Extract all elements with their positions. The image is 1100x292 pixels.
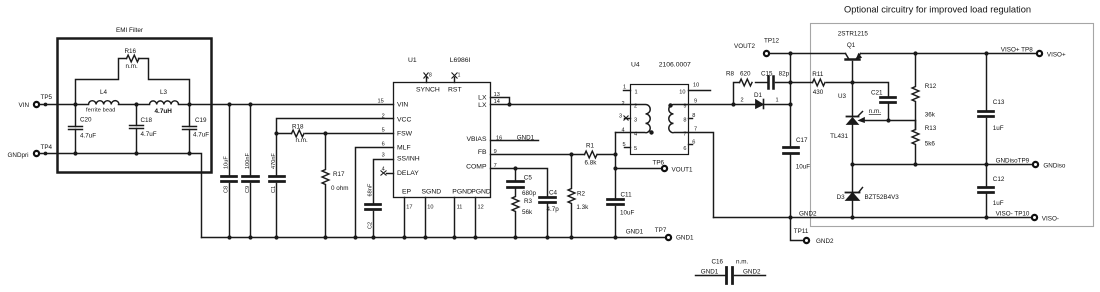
- svg-text:C4: C4: [549, 190, 558, 197]
- svg-text:C19: C19: [195, 117, 207, 124]
- capacitor C13: [979, 54, 994, 165]
- inductor L3: [150, 101, 179, 105]
- label R8: [726, 71, 751, 78]
- svg-text:R8: R8: [726, 71, 735, 78]
- svg-text:Optional circuitry for improve: Optional circuitry for improved load reg…: [844, 5, 1031, 15]
- pin RST stub: [454, 78, 456, 83]
- label GNDpri TP4: [8, 144, 53, 159]
- label C17: [796, 137, 811, 171]
- wire R11 line: [791, 82, 853, 84]
- wire GND2 VISO- rail: [714, 217, 1032, 219]
- svg-text:C9: C9: [245, 186, 251, 193]
- capacitor C12: [979, 165, 994, 218]
- junction dots GND1 rail: [227, 235, 617, 239]
- svg-text:C21: C21: [871, 89, 883, 96]
- svg-text:GND1: GND1: [701, 268, 719, 275]
- capacitor C15: [769, 77, 791, 89]
- svg-text:1: 1: [635, 90, 638, 96]
- svg-text:10: 10: [427, 205, 433, 211]
- svg-text:GND2: GND2: [799, 210, 817, 217]
- svg-text:0 ohm: 0 ohm: [331, 185, 349, 192]
- svg-text:1uF: 1uF: [993, 125, 1004, 132]
- transistor Q1 2STR1215: [846, 54, 862, 60]
- label VISO+ TP8: [1001, 47, 1066, 59]
- label U4: [631, 62, 691, 69]
- svg-text:C5: C5: [524, 175, 533, 182]
- svg-text:C16: C16: [712, 259, 724, 266]
- svg-text:GNDiso: GNDiso: [1043, 163, 1066, 170]
- svg-text:14: 14: [494, 99, 500, 105]
- wire TP11 stub: [791, 218, 804, 241]
- label C2 rotated: [367, 183, 373, 229]
- svg-text:7: 7: [494, 163, 497, 169]
- svg-text:2: 2: [741, 98, 744, 104]
- svg-text:56k: 56k: [522, 209, 533, 216]
- label R13: [925, 125, 937, 148]
- svg-text:GNDpri: GNDpri: [8, 152, 29, 159]
- svg-text:GND2: GND2: [816, 238, 834, 245]
- svg-text:7: 7: [694, 127, 697, 133]
- pin U4-3 stub: [625, 118, 631, 120]
- svg-text:D1: D1: [754, 92, 763, 99]
- capacitor C20: [69, 105, 83, 154]
- svg-text:U4: U4: [631, 62, 640, 69]
- svg-text:LX: LX: [478, 102, 487, 109]
- optional circuitry box: [811, 24, 1094, 227]
- svg-text:C17: C17: [796, 137, 808, 144]
- label C16: [701, 259, 761, 276]
- label GNDiso TP9: [996, 158, 1066, 170]
- svg-text:R12: R12: [925, 83, 937, 90]
- label VISO- TP10: [996, 211, 1059, 223]
- svg-text:GND1: GND1: [676, 235, 694, 242]
- svg-text:R11: R11: [812, 71, 824, 78]
- svg-text:4.7p: 4.7p: [547, 206, 560, 213]
- junction dots VIN line: [44, 102, 512, 106]
- svg-text:4.7uF: 4.7uF: [141, 131, 157, 138]
- svg-text:1: 1: [623, 85, 626, 91]
- junction dots VISO+ rail: [913, 51, 988, 55]
- svg-text:TP6: TP6: [653, 160, 665, 167]
- wire TP6 stub: [616, 168, 662, 170]
- svg-text:17: 17: [406, 205, 412, 211]
- wire GND1 bottom rail: [202, 237, 666, 239]
- junction dots FSW line: [274, 131, 327, 135]
- label R2: [576, 190, 589, 211]
- wire GNDiso rail: [853, 164, 1033, 166]
- svg-text:13: 13: [494, 92, 500, 98]
- label U4 pin numbers inside: [634, 90, 687, 153]
- capacitor C16 gnd bridge: [696, 268, 766, 284]
- svg-text:6: 6: [683, 146, 686, 152]
- transformer U4 body: [631, 85, 689, 155]
- svg-text:TP11: TP11: [794, 228, 809, 235]
- wire VOUT2 to Q1 collector: [791, 53, 846, 55]
- svg-text:82p: 82p: [779, 71, 790, 78]
- svg-text:2106.0007: 2106.0007: [659, 62, 691, 69]
- svg-text:LX: LX: [478, 94, 487, 101]
- svg-text:1: 1: [458, 73, 461, 79]
- label C9 rotated: [245, 153, 251, 193]
- svg-text:4.7uF: 4.7uF: [80, 133, 96, 140]
- label C4: [547, 190, 560, 213]
- label optional box title: [844, 5, 1031, 15]
- transformer primary winding: [631, 105, 651, 133]
- svg-text:R17: R17: [333, 171, 345, 178]
- pin PGND 12: [475, 198, 477, 238]
- svg-text:430: 430: [813, 89, 824, 96]
- label U4 pin numbers outside: [619, 83, 699, 149]
- svg-text:15: 15: [378, 99, 384, 105]
- label R3: [522, 198, 533, 216]
- wire COMP line: [491, 169, 548, 197]
- svg-text:620: 620: [740, 71, 751, 78]
- label C20: [80, 117, 96, 140]
- svg-text:5k6: 5k6: [925, 141, 936, 148]
- svg-text:7: 7: [683, 132, 686, 138]
- label C12: [993, 176, 1005, 207]
- wire L4-L3 junction segment: [119, 104, 150, 106]
- resistor R11: [813, 79, 825, 86]
- label R17: [331, 171, 349, 192]
- pin U4-1 stub: [624, 90, 631, 92]
- svg-text:12: 12: [478, 205, 484, 211]
- svg-text:GNDisoTP9: GNDisoTP9: [996, 158, 1030, 165]
- svg-text:R16: R16: [125, 48, 137, 55]
- label VIN TP5: [19, 94, 53, 109]
- test point TP10: [1032, 215, 1037, 220]
- svg-text:BZT52B4V3: BZT52B4V3: [865, 194, 900, 201]
- label U1 pin numbers: [378, 73, 503, 211]
- pin SYNCH stub: [426, 78, 428, 83]
- svg-text:1uF: 1uF: [993, 200, 1004, 207]
- svg-text:VCC: VCC: [397, 116, 411, 123]
- svg-text:FB: FB: [478, 149, 487, 156]
- svg-text:6.8k: 6.8k: [585, 160, 598, 167]
- svg-text:5: 5: [623, 142, 626, 148]
- junction dots FB line: [569, 152, 617, 156]
- label C13: [993, 99, 1005, 132]
- capacitor C4: [540, 198, 556, 238]
- transformer polarity dots: [649, 103, 672, 134]
- test point TP4: [34, 151, 39, 156]
- test point TP11: [804, 238, 809, 243]
- label C5: [522, 175, 537, 197]
- pin SGND 10: [425, 198, 427, 238]
- label Q1: [838, 31, 869, 50]
- pin U4-6 stub: [689, 144, 693, 146]
- capacitor C19: [183, 105, 197, 154]
- svg-text:COMP: COMP: [466, 164, 487, 171]
- test point TP5: [34, 102, 39, 107]
- capacitor C18: [130, 105, 144, 154]
- svg-text:L3: L3: [160, 89, 168, 96]
- svg-text:VIN: VIN: [19, 102, 30, 109]
- svg-text:5: 5: [382, 127, 385, 133]
- wire SS/INH branch: [374, 160, 394, 204]
- wire LX pin 13: [491, 98, 510, 105]
- capacitor C11: [608, 200, 624, 238]
- label C21: [869, 89, 883, 115]
- svg-text:3: 3: [619, 113, 622, 119]
- svg-text:L6986I: L6986I: [450, 57, 471, 64]
- label R18: [292, 123, 308, 144]
- svg-text:2: 2: [634, 104, 637, 110]
- label VOUT2 TP12: [734, 38, 780, 50]
- capacitor C2: [366, 205, 381, 238]
- label L3: [155, 89, 173, 115]
- capacitor C5: [508, 169, 524, 188]
- svg-text:VISO-: VISO-: [1042, 216, 1059, 223]
- test point TP6: [662, 166, 667, 171]
- wire GNDpri rail: [40, 154, 202, 238]
- svg-text:PGND: PGND: [471, 188, 491, 195]
- svg-text:TL431: TL431: [830, 133, 848, 140]
- svg-text:4: 4: [382, 167, 385, 173]
- label U3 TL431: [830, 93, 848, 140]
- svg-text:VOUT1: VOUT1: [672, 167, 693, 174]
- resistor R12: [912, 54, 919, 121]
- capacitor C1: [270, 134, 285, 238]
- svg-text:DELAY: DELAY: [397, 170, 419, 177]
- test point TP7: [666, 235, 671, 240]
- svg-text:C11: C11: [621, 191, 633, 198]
- svg-text:n.m.: n.m.: [126, 63, 138, 70]
- svg-text:2STR1215: 2STR1215: [838, 31, 869, 38]
- svg-text:C15: C15: [761, 71, 773, 78]
- svg-text:n.m.: n.m.: [296, 137, 308, 144]
- svg-text:TP12: TP12: [764, 38, 780, 45]
- svg-text:10uF: 10uF: [796, 164, 811, 171]
- wire VIN main line: [40, 104, 89, 106]
- svg-text:68nF: 68nF: [367, 183, 373, 196]
- shunt regulator U3 TL431: [847, 112, 863, 165]
- wire FSW line: [277, 133, 394, 135]
- no-connect X on DELAY pin 4: [381, 171, 387, 176]
- wire TL431 ref line with arrow: [859, 118, 916, 130]
- test point TP8: [1037, 51, 1042, 56]
- wire C21 branch: [853, 83, 889, 97]
- svg-text:4: 4: [634, 132, 637, 138]
- svg-text:Q1: Q1: [847, 42, 856, 49]
- label R11: [812, 71, 824, 96]
- svg-text:C1: C1: [271, 186, 277, 193]
- wire FB line: [491, 154, 616, 156]
- svg-text:C2: C2: [367, 222, 373, 229]
- svg-text:R1: R1: [586, 143, 595, 150]
- svg-text:TP5: TP5: [41, 94, 53, 101]
- wire U4 pin9 to D1 anode: [689, 104, 756, 106]
- svg-text:8: 8: [683, 118, 686, 124]
- pin U4-5 stub: [625, 147, 631, 149]
- svg-text:GND1: GND1: [517, 134, 535, 141]
- label TP6 VOUT1: [653, 160, 693, 174]
- svg-text:VISO+ TP8: VISO+ TP8: [1001, 47, 1033, 54]
- test point TP9: [1033, 162, 1038, 167]
- svg-text:SS/INH: SS/INH: [397, 155, 420, 162]
- svg-text:EP: EP: [402, 188, 412, 195]
- EMI filter box: [58, 39, 212, 173]
- junction dot COMP: [513, 166, 517, 170]
- svg-text:U1: U1: [408, 57, 417, 64]
- svg-text:2: 2: [622, 101, 625, 107]
- svg-text:PGND: PGND: [452, 188, 472, 195]
- junction dots D1 line: [731, 102, 792, 106]
- wire U4 pin7 to GND2 rail: [689, 133, 714, 218]
- pin DELAY stub: [387, 173, 394, 175]
- svg-text:R2: R2: [577, 190, 586, 197]
- label TP11 GND2: [794, 228, 834, 245]
- wire TP12 stub: [770, 53, 791, 55]
- resistor R1: [585, 151, 597, 158]
- svg-text:1: 1: [776, 98, 779, 104]
- label GND2 rail: [799, 210, 817, 217]
- svg-text:VIN: VIN: [397, 102, 408, 109]
- svg-text:RST: RST: [448, 87, 462, 94]
- svg-text:R3: R3: [524, 198, 533, 205]
- label L4: [86, 89, 116, 114]
- label R16 value: [125, 48, 138, 70]
- wire VOUT1 node vertical: [615, 133, 617, 199]
- no-connect X on U4 pin 3: [624, 116, 629, 121]
- label R1: [585, 143, 598, 167]
- label GND1 TP7: [626, 227, 694, 242]
- capacitor C8: [222, 105, 237, 238]
- pin EP 17: [404, 198, 406, 238]
- svg-text:C20: C20: [80, 117, 92, 124]
- svg-text:1.3k: 1.3k: [576, 204, 589, 211]
- pin PGND 11: [454, 198, 456, 238]
- svg-text:680p: 680p: [522, 190, 537, 197]
- label EMI Filter: [116, 27, 143, 34]
- label U1 pin names: [397, 87, 491, 196]
- resistor R8: [740, 79, 768, 86]
- svg-text:8: 8: [429, 73, 432, 79]
- svg-text:C18: C18: [141, 117, 153, 124]
- inductor L4: [89, 101, 119, 105]
- svg-text:VBIAS: VBIAS: [466, 136, 486, 143]
- label C1 rotated: [271, 153, 277, 193]
- junction dot C21 ref: [886, 118, 890, 122]
- svg-text:GND1: GND1: [626, 229, 644, 236]
- svg-text:C13: C13: [993, 99, 1005, 106]
- capacitor C9: [243, 105, 259, 238]
- label D3: [837, 194, 900, 201]
- svg-text:ferrite bead: ferrite bead: [86, 108, 116, 114]
- transformer secondary winding: [669, 105, 689, 133]
- wire VOUT2 node vertical: [790, 54, 792, 147]
- wire VBIAS to GND1 label: [491, 140, 539, 142]
- label GND1 net at VBIAS: [517, 134, 535, 141]
- svg-text:4: 4: [622, 127, 625, 133]
- resistor R17: [322, 134, 329, 238]
- label C15: [761, 71, 790, 78]
- junction dots GNDiso rail: [850, 162, 988, 166]
- label C19: [193, 117, 209, 139]
- svg-text:8: 8: [692, 113, 695, 119]
- wire VISO+ rail: [861, 53, 1037, 55]
- svg-text:5: 5: [634, 146, 637, 152]
- svg-text:6: 6: [692, 140, 695, 146]
- wire LX pin 14 to transformer: [491, 104, 631, 106]
- svg-text:9: 9: [683, 104, 686, 110]
- wire R16 bypass path: [76, 59, 190, 105]
- svg-text:4.7uH: 4.7uH: [155, 108, 173, 115]
- wire L3 to U1 VIN pin 15: [179, 104, 394, 106]
- pin U4-10 stub: [689, 90, 711, 92]
- zener diode D3 BZT52B4V3: [846, 165, 863, 218]
- resistor R2: [568, 155, 575, 238]
- op-amp U1 L6986I regulator body: [394, 83, 491, 198]
- svg-text:10: 10: [679, 90, 685, 96]
- wire snubber branch up: [734, 83, 740, 105]
- svg-text:9: 9: [694, 99, 697, 105]
- svg-text:VISO+: VISO+: [1047, 52, 1066, 59]
- svg-text:VOUT2: VOUT2: [734, 43, 755, 50]
- label C11: [620, 191, 635, 216]
- svg-text:470nF: 470nF: [271, 153, 277, 169]
- svg-text:6: 6: [382, 142, 385, 148]
- wire U4 pin4 to VOUT1: [616, 132, 631, 134]
- svg-text:11: 11: [457, 205, 463, 211]
- junction dot VOUT1 TP6: [613, 166, 617, 170]
- resistor R3: [512, 189, 519, 238]
- svg-text:TP4: TP4: [41, 144, 53, 151]
- svg-text:10uF: 10uF: [620, 209, 635, 216]
- svg-text:R18: R18: [292, 123, 304, 130]
- capacitor C17: [784, 148, 799, 218]
- svg-text:FSW: FSW: [397, 131, 413, 138]
- label C18: [141, 117, 157, 138]
- svg-text:EMI Filter: EMI Filter: [116, 27, 143, 34]
- svg-text:4.7uF: 4.7uF: [193, 132, 209, 139]
- label R12: [925, 83, 937, 119]
- svg-text:L4: L4: [100, 89, 108, 96]
- svg-text:C12: C12: [993, 176, 1005, 183]
- svg-text:SYNCH: SYNCH: [416, 87, 440, 94]
- svg-text:3: 3: [634, 118, 637, 124]
- junction dots GNDpri rail: [44, 151, 192, 155]
- capacitor C21: [881, 98, 896, 121]
- diode D1: [756, 100, 791, 109]
- svg-text:2: 2: [382, 113, 385, 119]
- resistor R13: [912, 121, 919, 165]
- no-connect X on RST pin 1: [452, 73, 458, 79]
- svg-text:TP7: TP7: [655, 227, 667, 234]
- resistor R16: [127, 55, 140, 62]
- svg-text:D3: D3: [837, 194, 846, 201]
- svg-text:36k: 36k: [925, 112, 936, 119]
- resistor R18: [292, 130, 305, 137]
- wire MLF branch: [356, 148, 394, 238]
- label C8 rotated: [224, 156, 230, 193]
- label U1: [408, 57, 471, 64]
- svg-text:R13: R13: [925, 125, 937, 132]
- svg-text:9: 9: [494, 149, 497, 155]
- svg-text:10: 10: [693, 83, 699, 89]
- pin U4-8 stub: [689, 118, 693, 120]
- svg-text:100nF: 100nF: [245, 153, 251, 169]
- svg-text:MLF: MLF: [397, 145, 411, 152]
- svg-text:n.m.: n.m.: [869, 108, 881, 115]
- no-connect X on SYNCH pin 8: [424, 73, 429, 79]
- wire Q1 base vertical: [852, 62, 854, 116]
- svg-text:3: 3: [382, 152, 385, 158]
- junction dots GND2 rail: [788, 215, 988, 219]
- svg-text:C8: C8: [224, 186, 230, 193]
- svg-text:n.m.: n.m.: [736, 259, 748, 266]
- wire VCC branch: [277, 119, 394, 134]
